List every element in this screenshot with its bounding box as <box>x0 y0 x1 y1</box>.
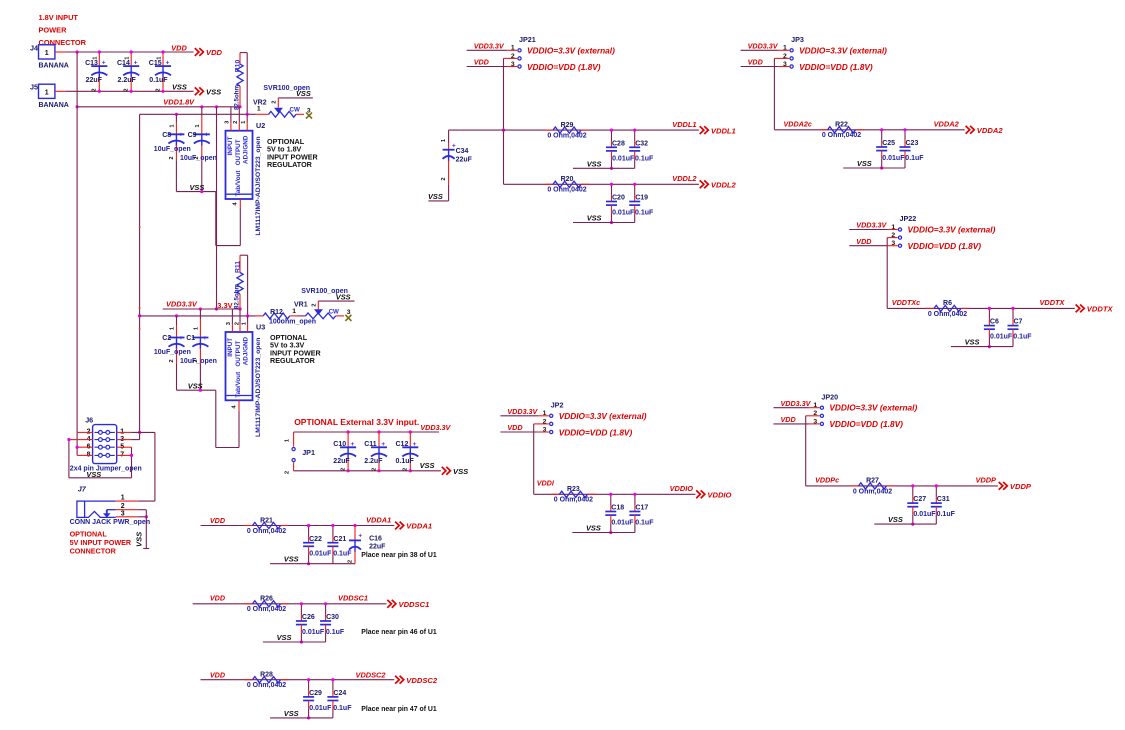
svg-text:Place near pin 46 of U1: Place near pin 46 of U1 <box>361 629 437 636</box>
wire C31 pin 1 <box>935 486 937 497</box>
off-page connector VDDP <box>999 482 1008 490</box>
svg-text:VDDP: VDDP <box>1010 482 1032 491</box>
svg-text:C19: C19 <box>635 195 648 202</box>
wire VDDTX row <box>887 307 1075 309</box>
svg-text:C29: C29 <box>309 690 322 697</box>
capacitor C6 <box>984 325 995 327</box>
svg-text:C10: C10 <box>333 441 346 448</box>
svg-text:2: 2 <box>271 101 277 104</box>
op-amp U3 regulator LM1117 <box>226 332 253 400</box>
svg-text:VDD: VDD <box>210 594 225 603</box>
svg-text:VDDSC1: VDDSC1 <box>338 594 368 603</box>
svg-text:VR1: VR1 <box>294 302 308 309</box>
wire J6 pin3 to vertical <box>132 439 140 441</box>
svg-text:2: 2 <box>371 468 377 471</box>
svg-text:C28: C28 <box>612 140 625 147</box>
wire VSS <box>263 641 326 643</box>
svg-text:VSS: VSS <box>277 633 292 642</box>
svg-text:C30: C30 <box>326 614 339 621</box>
svg-text:2: 2 <box>311 304 317 307</box>
svg-text:C15: C15 <box>149 60 162 67</box>
capacitor C30 <box>320 620 331 622</box>
wire VDDA2 row <box>774 129 964 131</box>
svg-text:VSS: VSS <box>284 555 299 564</box>
wire VSS <box>951 346 1013 348</box>
svg-text:C12: C12 <box>396 441 409 448</box>
wire C29 pin 1 <box>308 680 310 691</box>
wire vertical ADJ to J6 <box>139 114 141 439</box>
svg-text:VSS: VSS <box>135 532 144 547</box>
svg-text:VDDL2: VDDL2 <box>711 181 737 190</box>
svg-text:0 Ohm,0402: 0 Ohm,0402 <box>247 682 286 689</box>
wire J6 left pins <box>77 431 93 433</box>
svg-text:VDDA2: VDDA2 <box>977 126 1004 135</box>
connector J6 <box>93 425 117 464</box>
capacitor C27 <box>907 502 918 504</box>
wire C27 pin 2 to VSS <box>912 507 914 515</box>
svg-text:VSS: VSS <box>586 524 601 533</box>
wire C27 pin 1 <box>912 486 914 497</box>
resistor R28 <box>245 679 253 681</box>
svg-text:VDDIO=VDD (1.8V): VDDIO=VDD (1.8V) <box>559 427 633 437</box>
svg-text:VDD: VDD <box>474 58 489 67</box>
svg-text:ADJ/GND: ADJ/GND <box>243 135 250 164</box>
svg-text:1: 1 <box>292 308 296 315</box>
wire VSS <box>843 167 905 169</box>
svg-text:VDDA2: VDDA2 <box>934 120 960 129</box>
svg-text:U2: U2 <box>256 121 265 130</box>
wire U2 pin 1 ADJ <box>246 114 248 122</box>
svg-text:0.1uF: 0.1uF <box>937 511 956 518</box>
svg-text:SVR100_open: SVR100_open <box>301 288 348 295</box>
capacitor C1 <box>199 309 201 319</box>
svg-text:VDDIO=VDD (1.8V): VDDIO=VDD (1.8V) <box>799 62 873 72</box>
off-page connector VDD <box>195 48 204 56</box>
svg-text:VDD3.3V: VDD3.3V <box>507 407 538 416</box>
wire C7 pin 1 <box>1012 308 1014 319</box>
svg-text:INPUT: INPUT <box>227 136 234 155</box>
svg-text:2: 2 <box>124 88 130 91</box>
svg-text:C20: C20 <box>612 195 625 202</box>
wire VDD to R21 <box>201 525 395 527</box>
svg-text:2: 2 <box>403 468 409 471</box>
svg-text:1: 1 <box>257 105 261 112</box>
svg-text:0.1uF: 0.1uF <box>635 520 654 527</box>
svg-text:VDD3.3V: VDD3.3V <box>166 300 198 309</box>
svg-text:1.8V INPUT: 1.8V INPUT <box>39 13 79 22</box>
svg-text:0.1uF: 0.1uF <box>905 155 924 162</box>
wire JP1 top rail <box>294 431 440 433</box>
svg-text:VDDSC2: VDDSC2 <box>356 671 387 680</box>
wire C30 pin 1 <box>325 604 327 615</box>
svg-text:OUTPUT: OUTPUT <box>235 341 242 367</box>
wire C32 pin 2 to VSS <box>634 151 636 159</box>
svg-text:SVR100_open: SVR100_open <box>263 85 310 92</box>
wire VDD3.3V to JP2 pin 1 <box>500 415 538 417</box>
wire C24 pin 1 <box>332 680 334 691</box>
svg-text:VDDSC1: VDDSC1 <box>399 600 430 609</box>
svg-text:VDD3.3V: VDD3.3V <box>856 221 887 230</box>
capacitor C13 <box>98 52 100 66</box>
wire C6 pin 1 <box>988 308 990 319</box>
svg-text:VDD: VDD <box>781 415 796 424</box>
wire VDD3.3V to JP20 pin 1 <box>774 407 809 409</box>
wire C20 pin 1 <box>611 184 613 195</box>
svg-text:VDD: VDD <box>206 48 223 57</box>
svg-text:CONNECTOR: CONNECTOR <box>70 547 117 556</box>
wire U3 pin 1 ADJ <box>247 316 249 324</box>
resistor R12 <box>256 315 264 317</box>
svg-text:JP20: JP20 <box>821 392 838 401</box>
svg-text:J4: J4 <box>30 43 38 52</box>
wire C32 pin 1 <box>634 130 636 141</box>
svg-text:VDDIO=3.3V (external): VDDIO=3.3V (external) <box>829 403 917 413</box>
wire C28 pin 1 <box>611 130 613 141</box>
svg-text:C11: C11 <box>364 441 377 448</box>
svg-text:CW: CW <box>329 309 339 316</box>
wire JP3 pin 2 down <box>774 57 789 59</box>
svg-text:C23: C23 <box>906 140 919 147</box>
svg-text:0 Ohm,0402: 0 Ohm,0402 <box>547 133 586 140</box>
svg-text:C7: C7 <box>1014 319 1023 326</box>
svg-text:0.01uF: 0.01uF <box>309 551 332 558</box>
wire VDDL1 row <box>449 129 699 131</box>
svg-text:2: 2 <box>234 322 240 325</box>
connector J5 <box>39 84 55 98</box>
svg-text:10uF_open: 10uF_open <box>154 146 191 153</box>
wire VSS <box>573 222 635 224</box>
svg-text:+: + <box>134 60 138 67</box>
svg-text:CW: CW <box>290 106 300 113</box>
svg-text:VDD3.3V: VDD3.3V <box>781 399 812 408</box>
svg-text:VDDPc: VDDPc <box>815 476 839 485</box>
svg-text:R12: R12 <box>270 309 283 316</box>
svg-text:C9: C9 <box>188 132 197 139</box>
svg-text:VDD: VDD <box>171 44 187 53</box>
wire VDD3.3V to JP22 pin 1 <box>849 229 887 231</box>
svg-text:C16: C16 <box>369 536 382 543</box>
capacitor C20 <box>606 201 617 203</box>
off-page connector VDDL1 <box>700 126 709 134</box>
wire U2 pin 2 OUTPUT <box>238 107 240 123</box>
svg-text:OUTPUT: OUTPUT <box>235 139 242 165</box>
svg-text:C27: C27 <box>913 496 926 503</box>
capacitor C22 <box>303 542 314 544</box>
svg-text:VSS: VSS <box>172 82 187 91</box>
svg-text:VDDP: VDDP <box>975 476 996 485</box>
wire VSS stub at J7 <box>145 510 147 549</box>
no-connect X at VR1 pin 3 <box>345 315 351 321</box>
svg-text:22uF: 22uF <box>86 77 103 84</box>
wire U3 pin 2 OUTPUT <box>239 309 241 324</box>
svg-text:0 Ohm,0402: 0 Ohm,0402 <box>928 311 967 318</box>
svg-text:C34: C34 <box>456 148 469 155</box>
svg-text:22uF: 22uF <box>456 156 473 163</box>
svg-text:LM1117IMP-ADJ/SOT223_open: LM1117IMP-ADJ/SOT223_open <box>255 136 262 235</box>
svg-text:C26: C26 <box>302 614 315 621</box>
svg-text:R10: R10 <box>235 60 242 73</box>
wire U2 pin 3 INPUT <box>230 107 232 123</box>
wire J7 pin 2 <box>116 509 138 511</box>
svg-text:0.01uF: 0.01uF <box>612 210 635 217</box>
svg-text:0 Ohm,0402: 0 Ohm,0402 <box>822 132 861 139</box>
capacitor C25 <box>876 146 887 148</box>
svg-text:R28: R28 <box>260 672 273 679</box>
svg-text:Tab/Vout: Tab/Vout <box>235 371 242 398</box>
resistor R22 <box>820 129 828 131</box>
resistor R26 <box>245 603 253 605</box>
off-page connector VSS at JP1 <box>442 467 451 475</box>
svg-text:BANANA: BANANA <box>39 63 69 70</box>
svg-text:+: + <box>381 441 385 448</box>
wire C7 pin 2 to VSS <box>1012 329 1014 337</box>
wire C25 pin 1 <box>881 130 883 141</box>
wire C28 pin 2 to VSS <box>611 151 613 159</box>
svg-text:1: 1 <box>45 50 49 57</box>
wire JP22 pin 2 down <box>887 237 898 239</box>
resistor R21 <box>245 525 253 527</box>
wire JP2 pin 2 down <box>534 423 549 425</box>
wire VSS <box>573 167 635 169</box>
capacitor C28 <box>606 146 617 148</box>
capacitor C26 <box>296 620 307 622</box>
svg-text:0.01uF: 0.01uF <box>913 511 936 518</box>
svg-text:Tab/Vout: Tab/Vout <box>235 170 242 197</box>
svg-text:2: 2 <box>441 177 447 180</box>
wire C22 pin 2 to VSS <box>308 546 310 554</box>
off-page connector VDDA1 <box>395 522 404 530</box>
svg-text:C13: C13 <box>85 60 98 67</box>
svg-text:0 Ohm,0402: 0 Ohm,0402 <box>547 187 586 194</box>
svg-text:0 Ohm,0402: 0 Ohm,0402 <box>853 488 892 495</box>
capacitor C29 <box>303 696 314 698</box>
resistor R23 <box>551 493 559 495</box>
svg-text:VDDIO=3.3V (external): VDDIO=3.3V (external) <box>527 45 615 55</box>
wire VSS <box>874 523 936 525</box>
svg-text:C6: C6 <box>990 319 999 326</box>
svg-text:1: 1 <box>45 89 49 96</box>
svg-text:VSS: VSS <box>428 192 443 201</box>
resistor R10 <box>240 52 247 54</box>
no-connect X at VR2 pin 3 <box>306 113 312 119</box>
svg-text:VDDL1: VDDL1 <box>672 120 696 129</box>
connector JP2 <box>550 414 553 417</box>
svg-text:REGULATOR: REGULATOR <box>270 356 316 365</box>
wire JP20 pin 2 down <box>806 415 820 417</box>
capacitor C18 <box>605 511 616 513</box>
wire VDD3.3V to JP21 pin 1 <box>467 49 507 51</box>
svg-text:0 Ohm,0402: 0 Ohm,0402 <box>554 497 593 504</box>
svg-text:JP2: JP2 <box>551 401 564 410</box>
svg-text:82.5ohm: 82.5ohm <box>233 84 240 110</box>
svg-text:VDDIO=3.3V (external): VDDIO=3.3V (external) <box>908 225 996 235</box>
wire ADJ net U3 <box>140 315 256 317</box>
wire VDD to R28 <box>201 679 395 681</box>
svg-text:ADJ/GND: ADJ/GND <box>243 336 250 365</box>
wire VSS extension to C16 <box>333 563 355 565</box>
svg-text:J7: J7 <box>78 484 87 493</box>
connector JP1 <box>293 432 295 447</box>
svg-text:VDD3.3V: VDD3.3V <box>474 42 505 51</box>
wire VSS <box>270 563 333 565</box>
connector JP3 <box>790 49 793 52</box>
wire C31 pin 2 to VSS <box>935 507 937 515</box>
wire VDDP row <box>806 485 998 487</box>
svg-text:2: 2 <box>194 156 200 159</box>
svg-text:0.01uF: 0.01uF <box>882 155 905 162</box>
svg-text:+: + <box>179 132 183 139</box>
wire C20 pin 2 to VSS <box>611 205 613 213</box>
wire U3 pin 3 INPUT <box>231 309 233 324</box>
wire J6 VSS loop <box>68 440 70 478</box>
wire C23 pin 1 <box>904 130 906 141</box>
svg-text:VDD1.8V: VDD1.8V <box>163 97 195 106</box>
svg-text:VDD3.3V: VDD3.3V <box>748 42 779 51</box>
svg-text:R11: R11 <box>235 261 242 273</box>
svg-text:VSS: VSS <box>206 88 221 97</box>
wire VDD to JP20 pin 3 <box>774 423 809 425</box>
svg-text:2: 2 <box>193 359 199 362</box>
wire VSS at VR2 pin 2 <box>278 97 313 99</box>
svg-text:OPTIONAL External 3.3V input.: OPTIONAL External 3.3V input. <box>294 417 419 427</box>
svg-text:VDDL1: VDDL1 <box>711 126 736 135</box>
svg-text:0.01uF: 0.01uF <box>990 334 1013 341</box>
svg-text:VSS: VSS <box>188 382 203 391</box>
wire C17 pin 1 <box>634 494 636 505</box>
svg-text:LM1117IMP-ADJ/SOT223_open: LM1117IMP-ADJ/SOT223_open <box>255 338 262 437</box>
capacitor C11 <box>378 432 380 447</box>
svg-text:0 Ohm,0402: 0 Ohm,0402 <box>247 606 286 613</box>
wire vertical from J4 to J6 <box>76 52 78 455</box>
svg-text:0.01uF: 0.01uF <box>302 629 325 636</box>
svg-text:2: 2 <box>347 560 353 563</box>
svg-text:22uF: 22uF <box>333 458 350 465</box>
svg-text:C18: C18 <box>611 505 624 512</box>
wire C25 pin 2 to VSS <box>881 151 883 159</box>
svg-text:VSS: VSS <box>587 159 602 168</box>
svg-text:VDDA2c: VDDA2c <box>784 120 812 129</box>
svg-text:R29: R29 <box>561 122 574 129</box>
svg-text:JP22: JP22 <box>900 214 917 223</box>
svg-text:VDDSC2: VDDSC2 <box>406 676 438 685</box>
wire JP21 pin 2 down <box>504 57 518 59</box>
svg-text:Place near pin 47 of U1: Place near pin 47 of U1 <box>361 706 437 713</box>
wire VDD3.3V to JP3 pin 1 <box>741 49 779 51</box>
svg-text:VSS: VSS <box>420 461 435 470</box>
svg-text:C25: C25 <box>882 140 895 147</box>
capacitor C12 <box>409 432 411 447</box>
op-amp U2 regulator LM1117 <box>226 131 253 199</box>
resistor R11 <box>240 254 248 256</box>
wire C18 pin 1 <box>610 494 612 505</box>
svg-text:2: 2 <box>341 468 347 471</box>
svg-text:0.01uF: 0.01uF <box>611 520 634 527</box>
capacitor C24 <box>327 696 338 698</box>
capacitor C17 <box>629 511 640 513</box>
wire JP1 bottom rail VSS <box>294 470 441 472</box>
wire C26 pin 2 to VSS <box>300 625 302 633</box>
wire C29 pin 2 to VSS <box>308 701 310 709</box>
capacitor C14 <box>130 52 132 66</box>
svg-text:+: + <box>102 60 106 67</box>
capacitor C8 <box>175 114 177 122</box>
wire VDD to JP21 pin 3 <box>467 66 507 68</box>
svg-text:C24: C24 <box>333 690 346 697</box>
wire C18 pin 2 to VSS <box>610 515 612 523</box>
svg-text:VSS: VSS <box>453 467 468 476</box>
wire C26 pin 1 <box>300 604 302 615</box>
svg-text:VDD: VDD <box>507 423 522 432</box>
svg-text:+: + <box>204 132 208 139</box>
svg-text:0.1uF: 0.1uF <box>396 458 415 465</box>
svg-text:VSS: VSS <box>888 515 903 524</box>
connector J4 <box>39 45 55 59</box>
wire VDD to JP2 pin 3 <box>500 431 538 433</box>
wire vertical VDD1.8V to VDD3.3V <box>216 107 218 309</box>
capacitor C7 <box>1008 325 1019 327</box>
svg-text:C21: C21 <box>333 536 346 543</box>
off-page connector VDDSC2 <box>395 676 404 684</box>
connector JP22 <box>898 228 901 231</box>
wire U3 pin 4 <box>238 400 240 411</box>
svg-text:0.1uF: 0.1uF <box>149 77 168 84</box>
off-page connector VDDTX <box>1076 305 1085 313</box>
svg-text:VDDIO=VDD (1.8V): VDDIO=VDD (1.8V) <box>527 62 601 72</box>
wire C24 pin 2 to VSS <box>332 701 334 709</box>
wire VDD1.8V rail <box>77 106 240 108</box>
svg-text:VSS: VSS <box>587 214 602 223</box>
svg-text:VDD: VDD <box>210 671 225 680</box>
svg-text:2.2uF: 2.2uF <box>364 458 383 465</box>
svg-text:VDDTX: VDDTX <box>1087 305 1114 314</box>
svg-text:J5: J5 <box>30 83 38 92</box>
svg-text:R6: R6 <box>943 300 952 307</box>
svg-text:VDDIO=3.3V (external): VDDIO=3.3V (external) <box>799 45 887 55</box>
resistor R27 <box>851 485 859 487</box>
svg-text:2: 2 <box>155 88 161 91</box>
svg-text:R20: R20 <box>561 176 574 183</box>
capacitor C34 <box>448 130 450 143</box>
svg-text:VSS: VSS <box>965 338 980 347</box>
wire ADJ net U2 <box>140 113 256 115</box>
svg-text:VDDIO=3.3V (external): VDDIO=3.3V (external) <box>559 411 647 421</box>
wire C19 pin 2 to VSS <box>634 205 636 213</box>
svg-text:VDDA1: VDDA1 <box>366 515 391 524</box>
svg-text:82.5ohm: 82.5ohm <box>233 283 240 309</box>
svg-text:+: + <box>166 60 170 67</box>
svg-text:J6: J6 <box>85 415 93 424</box>
svg-text:VDDIO: VDDIO <box>707 491 731 500</box>
potentiometer VR2 <box>256 113 269 115</box>
svg-text:C22: C22 <box>309 536 322 543</box>
svg-text:+: + <box>358 532 362 539</box>
svg-text:2.2uF: 2.2uF <box>118 77 137 84</box>
svg-text:JP21: JP21 <box>519 35 536 44</box>
wire VSS C2 C1 to U3 pin 4 <box>177 389 216 391</box>
capacitor C9 <box>201 107 203 116</box>
svg-text:22uF: 22uF <box>369 544 386 551</box>
off-page connector VDDSC1 <box>387 600 396 608</box>
svg-text:C14: C14 <box>117 60 130 67</box>
capacitor C15 <box>162 52 164 66</box>
svg-text:VSS: VSS <box>857 159 872 168</box>
svg-text:2: 2 <box>285 471 291 474</box>
capacitor C23 <box>900 146 911 148</box>
svg-text:JP1: JP1 <box>302 448 315 457</box>
svg-text:VDDIO=VDD (1.8V): VDDIO=VDD (1.8V) <box>908 241 982 251</box>
wire VSS at VR1 pin 2 <box>318 300 354 302</box>
svg-text:VDD: VDD <box>856 237 871 246</box>
